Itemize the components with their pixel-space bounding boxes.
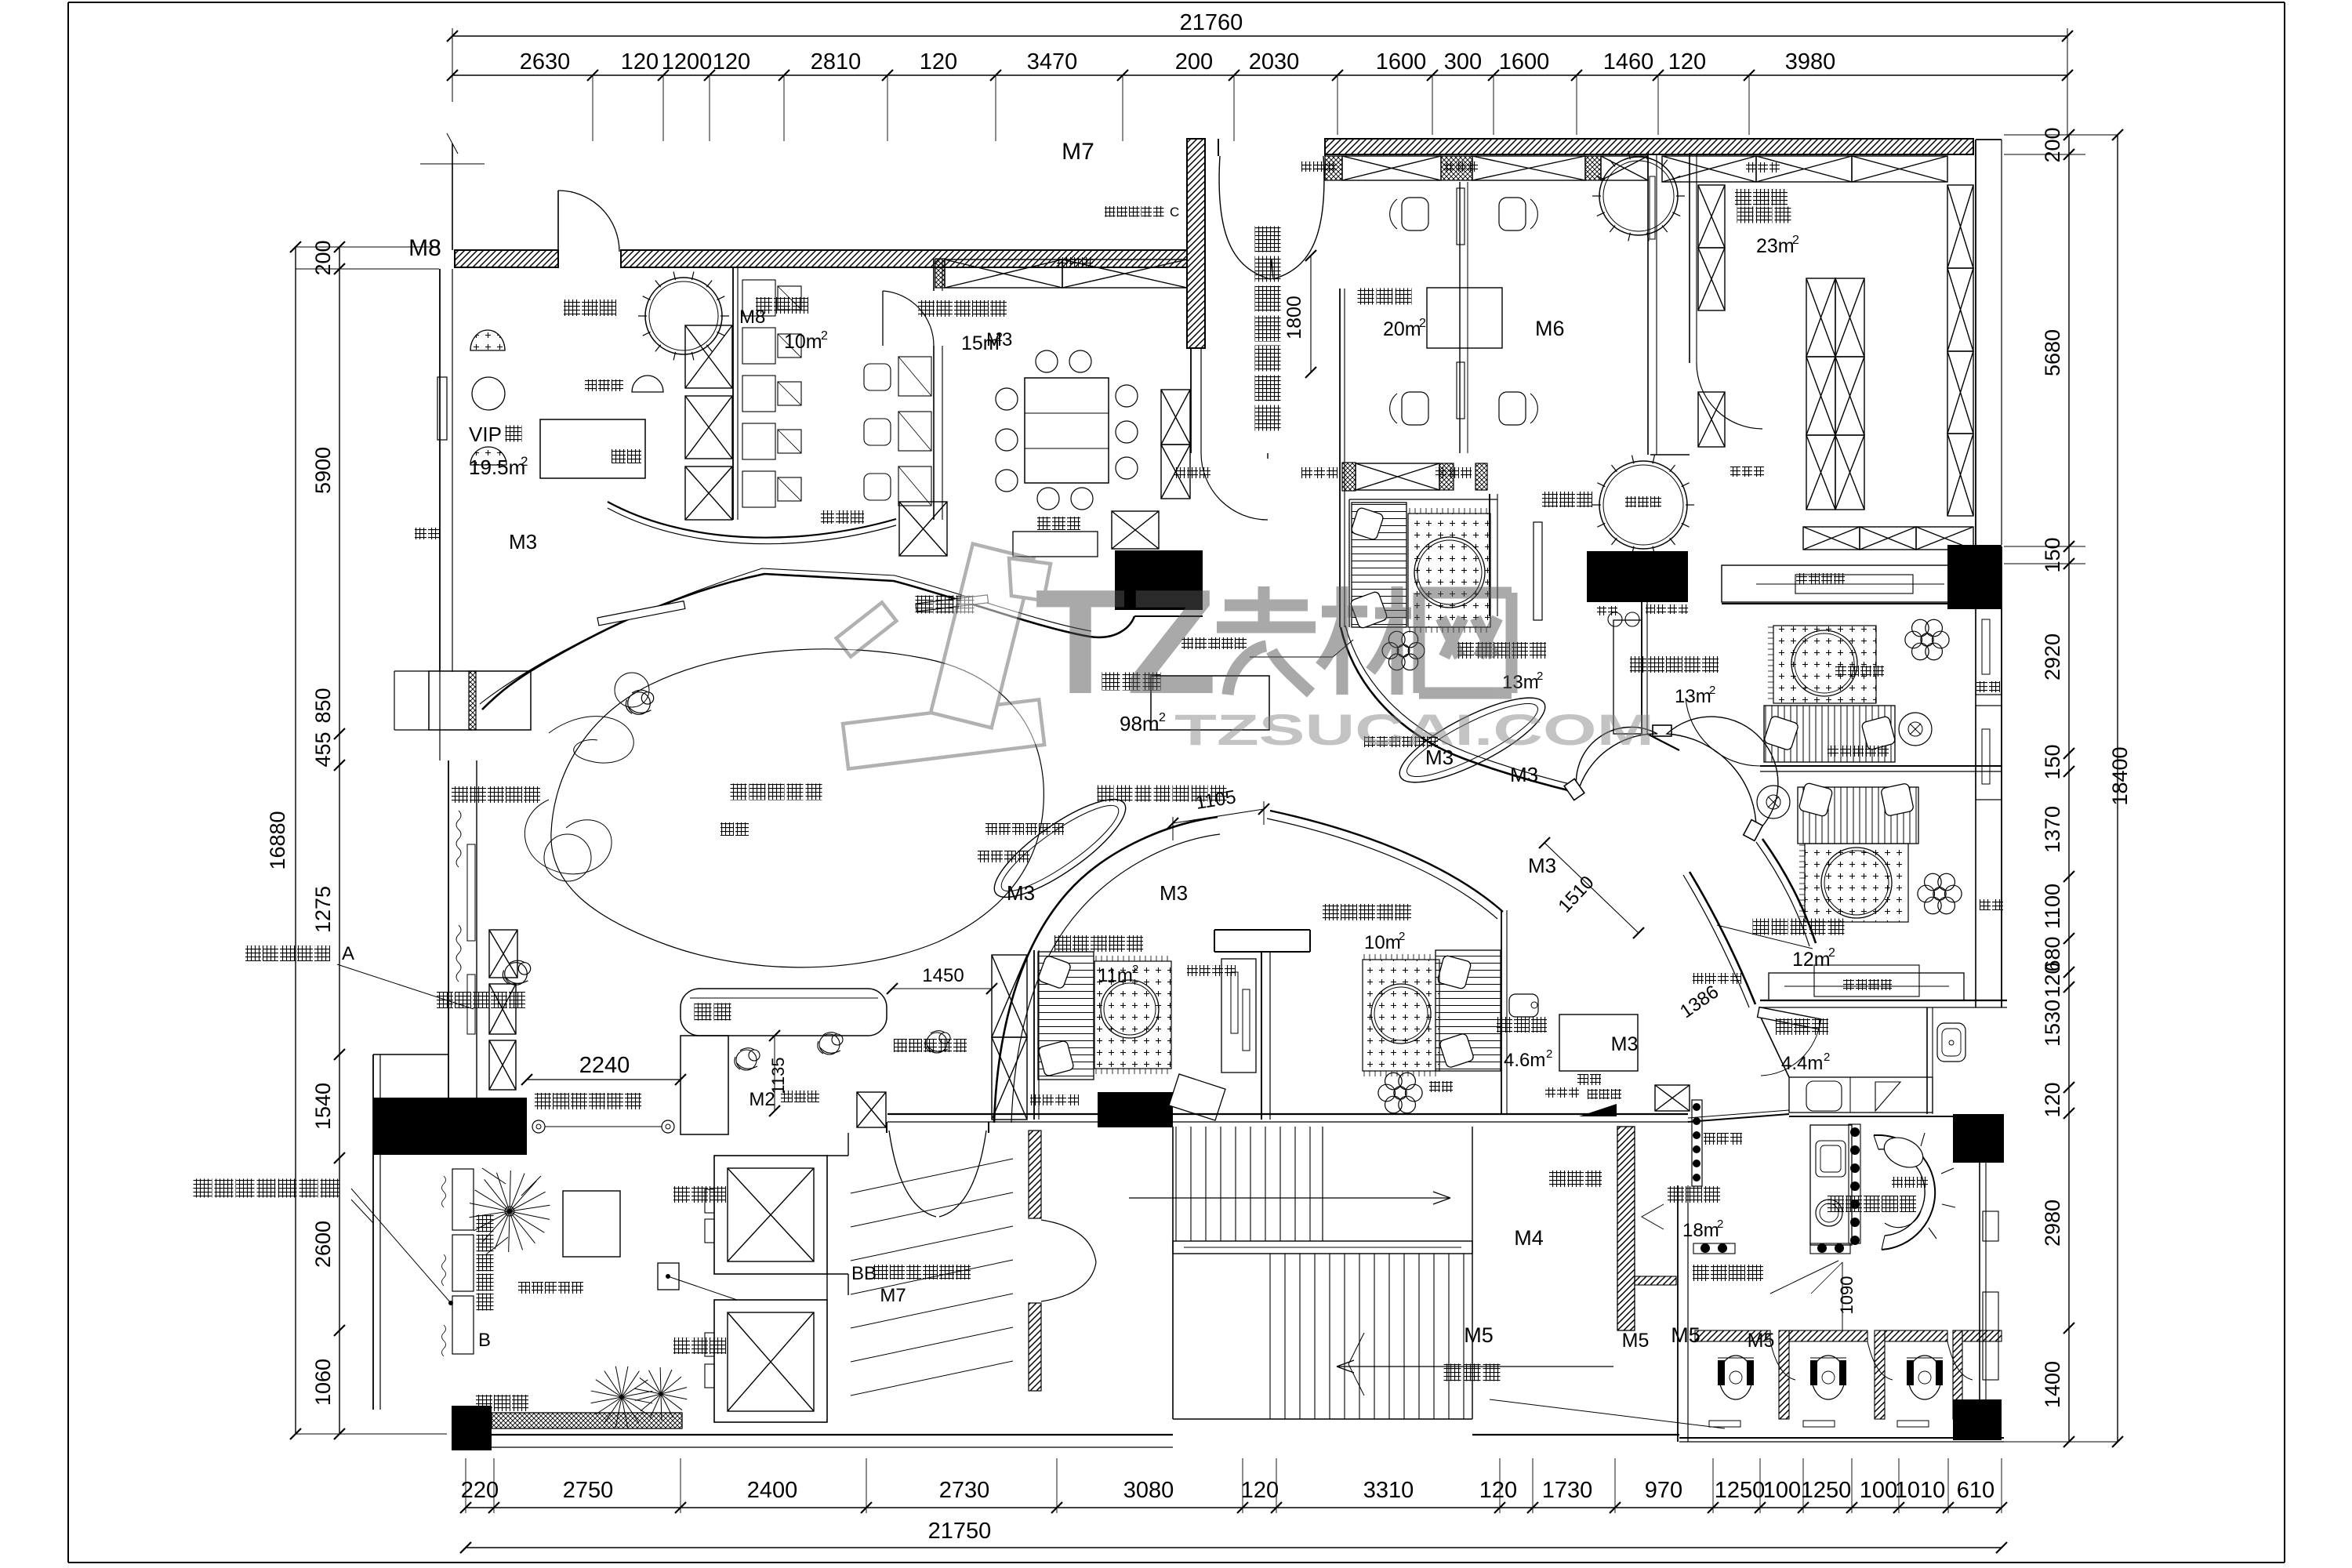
svg-text:M3: M3	[1528, 854, 1556, 877]
label reception	[1102, 673, 1120, 691]
svg-text:M4: M4	[1514, 1226, 1544, 1250]
svg-text:20m: 20m	[1383, 318, 1421, 340]
dimension row top	[452, 74, 2067, 76]
person figure 1	[626, 690, 653, 714]
label parent rest area	[452, 786, 468, 803]
svg-text:12m: 12m	[1792, 949, 1831, 971]
wall curve to nursing door	[1690, 872, 1755, 1004]
svg-text:16880: 16880	[266, 811, 289, 869]
svg-text:4.6m: 4.6m	[1504, 1050, 1545, 1071]
svg-text:120: 120	[621, 49, 659, 74]
pier black toilet NE	[1953, 1114, 2004, 1163]
label toilet	[1668, 1186, 1684, 1203]
room5 flower	[1944, 885, 1962, 902]
door makeup	[1201, 453, 1268, 520]
clothing top band	[1662, 156, 1756, 182]
svg-text:M8: M8	[739, 307, 765, 328]
svg-text:2: 2	[1419, 317, 1426, 330]
lightbox rect	[1559, 1014, 1638, 1071]
svg-text:3470: 3470	[1027, 49, 1078, 74]
door nursing	[1758, 1007, 1821, 1029]
room VIP wardrobe	[540, 419, 645, 478]
svg-text:1250: 1250	[1715, 1478, 1766, 1503]
room1 bed	[1038, 952, 1094, 1080]
wall left exterior upper	[439, 269, 441, 672]
nursing sink	[1937, 1023, 1965, 1062]
pier X below safe	[899, 502, 947, 556]
svg-text:M3: M3	[1611, 1033, 1639, 1055]
safe label	[821, 510, 834, 524]
svg-text:1450: 1450	[922, 965, 964, 986]
wall curve upper storage-bottom	[608, 502, 896, 538]
kids toilet C-curve	[1874, 1135, 1935, 1250]
wall curve five-left	[1762, 839, 1816, 943]
svg-text:VIP: VIP	[469, 423, 502, 446]
sink counter kids	[1810, 1125, 1852, 1245]
wall storage hatched	[1617, 1127, 1635, 1330]
svg-text:1800: 1800	[1283, 296, 1305, 339]
svg-text:M6: M6	[1535, 317, 1565, 340]
svg-text:3980: 3980	[1785, 49, 1836, 74]
svg-text:M7: M7	[1062, 139, 1094, 165]
label staff-lounge	[918, 300, 935, 317]
wall changing-lower	[1489, 494, 1490, 616]
room film-storage walls	[732, 267, 734, 520]
clothing racks	[1806, 278, 1835, 357]
art bench	[1764, 706, 1895, 762]
label art painting	[1828, 746, 1838, 757]
wall main horizontal	[887, 1113, 1688, 1115]
cabinet X parent-safe	[857, 1092, 886, 1127]
stairs mid rail	[1173, 1241, 1472, 1254]
wall curve selection area	[482, 574, 1134, 710]
stairs arrow down	[1337, 1366, 1613, 1367]
label trinket cabinets	[1057, 257, 1068, 268]
art tables	[1899, 713, 1932, 746]
pier black bottom-left	[452, 1406, 492, 1450]
label room2	[1323, 904, 1339, 920]
svg-text:120: 120	[2041, 1082, 2064, 1117]
toilet fixtures	[1719, 1356, 1752, 1399]
label room5	[1753, 919, 1769, 935]
makeup table	[632, 376, 663, 392]
display cabinet B room1	[1221, 959, 1256, 1073]
room2 flower	[1405, 1084, 1422, 1102]
svg-text:2810: 2810	[811, 49, 862, 74]
label fake-hanzi hongwaixian-zone	[535, 1093, 551, 1109]
svg-text:120: 120	[713, 49, 750, 74]
svg-text:M5: M5	[1622, 1330, 1650, 1352]
water bar counter	[429, 671, 531, 730]
svg-text:M3: M3	[1160, 881, 1188, 905]
label fake-hanzi dengxiang-B vertical	[477, 1215, 494, 1232]
watermark logo and text	[837, 544, 1654, 769]
door stair-hall	[1041, 1220, 1096, 1262]
label fake-hanzi shuiba	[415, 528, 426, 539]
label luminous shelf 1	[978, 851, 989, 862]
svg-text:1010: 1010	[1895, 1478, 1946, 1503]
lightbox display band B	[452, 1169, 474, 1230]
dryer flower strip	[1692, 1100, 1702, 1186]
svg-text:A: A	[342, 943, 354, 964]
label cabinet B left	[1693, 973, 1704, 984]
dimension 1135	[774, 1036, 775, 1111]
wall vestibule lower	[1190, 348, 1192, 453]
wall stair-hall left jambs hatched	[1029, 1131, 1041, 1218]
door BB double	[886, 1122, 887, 1133]
svg-text:2600: 2600	[311, 1221, 335, 1268]
pier black corridor top	[1587, 551, 1688, 602]
svg-text:M3: M3	[1510, 763, 1538, 786]
kids activity area carpet outline	[551, 649, 1044, 967]
cabinet X drying	[1655, 1085, 1690, 1111]
cabinet band makeup top	[1325, 156, 1342, 180]
tree plant left	[510, 1211, 550, 1219]
wall clothing left	[1689, 153, 1690, 363]
svg-text:2: 2	[1828, 946, 1835, 960]
stairs upper flight	[1175, 1127, 1177, 1241]
person figures front	[735, 1048, 760, 1070]
server cabinet	[1013, 532, 1098, 557]
room2 rug	[1363, 960, 1439, 1071]
svg-text:5680: 5680	[2041, 329, 2064, 376]
svg-text:2240: 2240	[579, 1053, 630, 1078]
dimension 1386	[1717, 925, 1813, 949]
starburst plants bottom	[622, 1397, 652, 1403]
teahouse sink	[1509, 994, 1538, 1017]
svg-text:2920: 2920	[2041, 633, 2064, 681]
svg-text:100: 100	[1860, 1478, 1897, 1503]
label fridge	[1429, 1081, 1440, 1092]
bench pill A	[1390, 683, 1555, 798]
makeup center table	[1427, 288, 1502, 348]
wall makeup divider	[1459, 182, 1461, 453]
label elevator 1	[673, 1186, 690, 1203]
door butterfly	[1576, 727, 1657, 793]
elevator 1	[714, 1156, 827, 1274]
dimension column right	[2068, 135, 2070, 1442]
svg-text:1540: 1540	[311, 1083, 335, 1130]
svg-text:220: 220	[461, 1478, 499, 1503]
room3 bed	[1352, 503, 1406, 627]
svg-text:2: 2	[1399, 930, 1405, 943]
svg-text:1100: 1100	[2041, 884, 2064, 929]
label fake-hanzi gengyishi TL	[564, 299, 580, 316]
svg-text:100: 100	[1763, 1478, 1801, 1503]
room5 bed	[1798, 787, 1918, 844]
square planter	[563, 1191, 620, 1257]
flower strip h1	[1693, 1243, 1735, 1254]
door black triangle	[1579, 1104, 1617, 1116]
cabinet band room3 top	[1342, 463, 1356, 491]
svg-text:2980: 2980	[2041, 1200, 2064, 1247]
svg-text:2750: 2750	[563, 1478, 614, 1503]
front desk counter	[681, 989, 887, 1036]
svg-text:200: 200	[311, 240, 335, 275]
svg-text:11m: 11m	[1098, 965, 1133, 986]
dimension 1510	[1544, 843, 1639, 933]
styling wall hatch	[492, 1413, 682, 1428]
svg-text:M2: M2	[749, 1089, 775, 1110]
svg-text:1600: 1600	[1499, 49, 1550, 74]
svg-text:1275: 1275	[311, 886, 335, 933]
pier black infrared wall	[373, 1098, 527, 1155]
label film-storage	[756, 297, 772, 314]
svg-text:10m: 10m	[784, 331, 822, 353]
label luminous shelf 2	[1030, 1094, 1041, 1105]
label fire hydrant + dispenser	[1545, 1087, 1555, 1098]
svg-text:2: 2	[1546, 1047, 1552, 1061]
wall bottom exterior	[452, 1434, 1173, 1436]
wall toilet bottom	[1679, 1437, 2004, 1439]
wall toilet left	[1677, 1185, 1679, 1442]
room3 rug	[1408, 514, 1490, 627]
svg-text:120: 120	[2041, 962, 2064, 997]
label fake-hanzi dengxiang-A	[245, 946, 261, 961]
room2 bed	[1436, 950, 1501, 1071]
dimension 21760 top	[452, 35, 2067, 37]
label teahouse	[1497, 1017, 1512, 1033]
display cabinet EB	[1769, 973, 1964, 1000]
door clothing	[1697, 363, 1762, 429]
wall I-pier room1-2	[1214, 929, 1310, 931]
svg-text:1530: 1530	[2041, 1000, 2064, 1047]
reception desk	[1151, 676, 1269, 730]
wall room4	[1641, 602, 1642, 734]
svg-text:850: 850	[311, 688, 335, 723]
label kids area	[731, 784, 747, 800]
clothing right X col	[1947, 185, 1973, 268]
svg-text:2: 2	[1537, 670, 1543, 683]
wall teahouse left	[1501, 910, 1502, 1114]
svg-text:2030: 2030	[1249, 49, 1300, 74]
room3 flower	[1408, 643, 1425, 659]
wall right mid strips	[1976, 601, 2002, 695]
door top-left	[557, 191, 559, 250]
svg-text:M3: M3	[986, 329, 1012, 350]
cabinet X between VIP and storage	[685, 325, 732, 388]
VIP sofa seats	[470, 330, 505, 350]
svg-text:150: 150	[2041, 537, 2064, 572]
display cabinet C	[1722, 565, 1976, 602]
svg-text:2: 2	[821, 329, 828, 343]
svg-text:2730: 2730	[939, 1478, 990, 1503]
svg-text:13m: 13m	[1675, 686, 1711, 707]
dimension column left	[339, 247, 340, 1434]
svg-text:TZSUCAI.COM: TZSUCAI.COM	[1174, 705, 1654, 754]
svg-text:200: 200	[2041, 127, 2064, 162]
room5 rug	[1805, 844, 1908, 922]
elevator button box	[658, 1263, 679, 1290]
svg-text:455: 455	[311, 731, 335, 767]
kids area small loops	[549, 717, 633, 764]
pier black toilet SE	[1953, 1399, 2002, 1440]
svg-text:1250: 1250	[1801, 1478, 1852, 1503]
svg-text:1200: 1200	[662, 49, 713, 74]
label changing lower	[1542, 492, 1558, 507]
wall room1 left	[1033, 950, 1035, 1120]
wall curve to teahouse	[1270, 811, 1503, 912]
person figure 2	[503, 960, 530, 985]
svg-text:B: B	[478, 1330, 491, 1351]
svg-text:M5: M5	[1748, 1330, 1775, 1352]
stairs lower flight	[1269, 1254, 1271, 1419]
svg-text:21760: 21760	[1180, 10, 1243, 35]
svg-text:120: 120	[1241, 1478, 1279, 1503]
wall left parent-rest band	[448, 760, 449, 1111]
toilet stall separators	[1779, 1330, 1789, 1419]
svg-text:1460: 1460	[1603, 49, 1654, 74]
clothing left X col	[1698, 185, 1725, 248]
label fake-hanzi white-frp vertical	[1255, 227, 1281, 252]
dimension row bottom	[466, 1507, 2002, 1508]
stall base rects	[1709, 1421, 1740, 1427]
fitting room circle top-left	[645, 278, 722, 354]
wall curve room2 outer	[994, 817, 1218, 1123]
svg-text:TZ: TZ	[1035, 559, 1217, 725]
svg-text:M3: M3	[1007, 881, 1035, 905]
label luminous sign	[1181, 637, 1193, 649]
svg-text:120: 120	[1479, 1478, 1517, 1503]
svg-text:120: 120	[920, 49, 957, 74]
wall room3 left vertical	[1339, 289, 1341, 627]
label parent safe	[894, 1039, 907, 1052]
svg-text:C: C	[1170, 205, 1179, 220]
wood-art rug	[1773, 626, 1876, 703]
bench pill B	[982, 784, 1138, 913]
label storage room	[1549, 1171, 1566, 1187]
label flush valve	[1444, 1364, 1461, 1381]
svg-text:4.4m: 4.4m	[1781, 1053, 1823, 1074]
water pipe circles	[1608, 612, 1622, 626]
disinfect cabinet circle	[1599, 461, 1687, 549]
BB parking diagonals	[851, 1159, 1013, 1193]
clothing bottom band	[1803, 527, 1860, 550]
cabinet band staff top	[935, 259, 945, 288]
label room1	[1054, 935, 1071, 952]
svg-text:1600: 1600	[1376, 49, 1427, 74]
flower strip v2	[1849, 1124, 1860, 1243]
svg-text:2: 2	[1792, 234, 1799, 247]
svg-text:1730: 1730	[1542, 1478, 1593, 1503]
svg-text:970: 970	[1645, 1478, 1682, 1503]
svg-text:5900: 5900	[311, 447, 335, 494]
dimension 1450	[892, 988, 992, 989]
label flower stand	[1693, 1265, 1709, 1281]
label bench B	[985, 823, 997, 835]
label nursing	[1776, 1018, 1792, 1035]
label trash bin	[1892, 1177, 1903, 1188]
svg-text:M3: M3	[509, 530, 537, 554]
wall top-left exterior hatched	[455, 250, 558, 267]
svg-text:2400: 2400	[747, 1478, 798, 1503]
label clothing room	[1737, 207, 1754, 223]
svg-text:2630: 2630	[520, 49, 571, 74]
svg-text:2: 2	[521, 454, 528, 469]
label fake-hanzi white-frp horizontal	[1098, 786, 1114, 802]
svg-text:1060: 1060	[311, 1359, 335, 1406]
svg-text:BB: BB	[851, 1263, 877, 1284]
label bench A	[1364, 736, 1375, 747]
wall entrance vestibule hatched	[1187, 139, 1205, 348]
room1 rug	[1094, 961, 1171, 1069]
svg-text:18400: 18400	[2108, 746, 2132, 805]
room3 outline	[1349, 499, 1497, 500]
svg-text:2: 2	[1824, 1051, 1830, 1064]
label room3	[1457, 642, 1474, 659]
svg-text:M7: M7	[880, 1285, 906, 1306]
label makeup room	[1358, 289, 1374, 305]
label fake-hanzi yuanyouchuang	[194, 1179, 212, 1198]
wall stub above M8	[452, 143, 453, 250]
door staff-lounge	[882, 291, 884, 346]
label wall-cabinet	[1980, 899, 1991, 910]
wall makeup right	[1647, 154, 1649, 455]
wall BB bottom region	[826, 1274, 828, 1300]
toilet stalls hatch band	[1695, 1330, 1770, 1341]
nursing bench	[1789, 1077, 1933, 1112]
film storage desks	[742, 280, 775, 316]
svg-text:10m: 10m	[1364, 932, 1401, 953]
label fake-hanzi chanpin-display	[437, 992, 453, 1008]
dimension 2240	[527, 1079, 681, 1080]
stall doors	[1770, 1341, 1795, 1380]
wood-art flower	[1932, 631, 1949, 648]
display cabinet A tilted	[1169, 1074, 1225, 1120]
pier black room1	[1098, 1092, 1173, 1127]
label fake-hanzi fangzhencao-C bench	[1105, 206, 1116, 217]
wall left exterior lower	[372, 1054, 374, 1410]
entrance double door M7	[1218, 139, 1219, 156]
svg-text:21750: 21750	[928, 1519, 992, 1544]
label front desk	[695, 1004, 712, 1021]
svg-text:3310: 3310	[1363, 1478, 1414, 1503]
svg-text:2: 2	[1709, 684, 1715, 697]
svg-text:2: 2	[1132, 963, 1138, 976]
flower strip h2	[1810, 1243, 1850, 1254]
wall toilet right	[1979, 1163, 1980, 1399]
wall right exterior top	[1975, 140, 1976, 545]
svg-text:1400: 1400	[2041, 1361, 2064, 1408]
svg-text:610: 610	[1957, 1478, 1994, 1503]
pier black reception	[1115, 550, 1203, 610]
wall top-right exterior hatched	[1325, 139, 1973, 154]
svg-text:23m: 23m	[1756, 235, 1795, 257]
label fake-hanzi zaoxingqiang	[476, 1395, 492, 1411]
svg-text:18m: 18m	[1682, 1220, 1719, 1241]
svg-text:M8: M8	[408, 235, 441, 261]
makeup stations	[1457, 188, 1465, 245]
wall nursing top	[1760, 1000, 2007, 1001]
svg-text:3080: 3080	[1123, 1478, 1174, 1503]
wall clothing inner top	[1650, 454, 1690, 456]
svg-text:M5: M5	[1464, 1323, 1494, 1347]
label kids-only	[1828, 1196, 1844, 1212]
cabinet X-boxes product display	[489, 930, 517, 978]
page border frame	[67, 2, 69, 1563]
svg-text:150: 150	[2041, 744, 2064, 779]
dimension 1090	[1842, 1262, 1843, 1331]
stairs arrow up	[1129, 1197, 1450, 1199]
svg-text:120: 120	[1668, 49, 1706, 74]
svg-text:1370: 1370	[2041, 806, 2064, 853]
label room4	[1630, 656, 1646, 673]
label elevator 2	[673, 1338, 690, 1354]
svg-text:M5: M5	[1671, 1323, 1700, 1347]
svg-text:1090: 1090	[1837, 1276, 1857, 1315]
dimension 1800 makeup	[1310, 256, 1312, 372]
wall nursing right	[1926, 1007, 1928, 1114]
